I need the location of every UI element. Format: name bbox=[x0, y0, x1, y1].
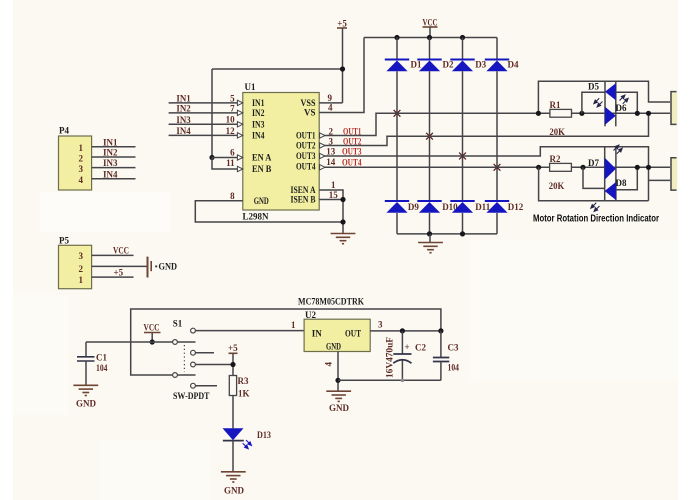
svg-text:R2: R2 bbox=[550, 154, 561, 164]
wire S1 throw stub 2 bbox=[195, 385, 217, 387]
svg-text:GND: GND bbox=[254, 196, 269, 206]
junction OUT2 with diode column D2/D10 bbox=[426, 133, 433, 140]
svg-text:D3: D3 bbox=[475, 59, 486, 69]
white right margin strip bbox=[678, 0, 700, 500]
U1 pin 6 arrow bbox=[237, 155, 242, 160]
capacitor C2 plus plate bbox=[393, 353, 411, 355]
svg-text:D5: D5 bbox=[588, 82, 599, 92]
S1 pole 1 contact bbox=[173, 340, 178, 345]
op IC U1 L298N body bbox=[243, 93, 319, 211]
svg-text:20K: 20K bbox=[549, 127, 565, 137]
svg-text:OUT4: OUT4 bbox=[296, 162, 316, 172]
svg-text:4: 4 bbox=[79, 175, 84, 185]
wire net OUT3 from pin 13 to lower indicator loop bbox=[319, 147, 648, 201]
svg-text:OUT1: OUT1 bbox=[296, 131, 316, 141]
junction OUT at C3 and loop bbox=[438, 328, 443, 333]
junction U2 GND with cap rail bbox=[335, 378, 340, 383]
wire net IN3 into U1 bbox=[169, 123, 243, 125]
svg-text:2: 2 bbox=[329, 126, 334, 136]
S1 pole 2 lever bbox=[177, 374, 195, 376]
svg-text:OUT2: OUT2 bbox=[296, 141, 316, 151]
svg-text:D1: D1 bbox=[411, 59, 422, 69]
diode D3 bbox=[450, 60, 474, 72]
faded white patch below P4 bbox=[40, 192, 170, 232]
svg-text:EN A: EN A bbox=[252, 153, 272, 163]
junction OUT1 at upper loop bbox=[536, 111, 541, 116]
wire ISEN A pin 1 to ground bbox=[319, 190, 343, 233]
svg-text:GND: GND bbox=[76, 398, 97, 408]
wire D6 cathode vertical bbox=[615, 81, 617, 126]
svg-text:IN: IN bbox=[312, 329, 323, 339]
U1 pin 13 output arrow bbox=[320, 153, 325, 158]
svg-text:D8: D8 bbox=[616, 178, 627, 188]
junction bottom rail at D10 bbox=[427, 231, 432, 236]
junction OUT3 with diode column D3/D11 bbox=[459, 153, 466, 160]
wire C1 bottom lead to ground bbox=[85, 361, 87, 385]
+5 bar at R3 bbox=[229, 352, 238, 354]
wire P5 pin 2 to GND bbox=[92, 265, 147, 267]
svg-text:OUT4: OUT4 bbox=[342, 157, 362, 167]
svg-text:IN3: IN3 bbox=[252, 119, 265, 129]
wire U1 VSS pin 9 to +5 bbox=[319, 102, 342, 104]
diode D1 bbox=[385, 60, 409, 72]
svg-text:+: + bbox=[405, 342, 410, 352]
ground below diode array bbox=[418, 243, 443, 253]
wire switch pole2 loop over U2 to output node bbox=[131, 309, 441, 375]
svg-text:Motor Rotation Direction Indic: Motor Rotation Direction Indicator bbox=[533, 213, 659, 225]
svg-text:IN3: IN3 bbox=[176, 115, 191, 125]
+5 supply bar bbox=[337, 27, 347, 29]
junction OUT at C2 bbox=[400, 328, 405, 333]
svg-text:VSS: VSS bbox=[301, 98, 316, 108]
svg-text:ISEN B: ISEN B bbox=[291, 195, 316, 205]
wire net OUT1 from pin 2 to indicator and motor connector bbox=[319, 113, 671, 135]
connector P5 bbox=[59, 245, 92, 288]
svg-text:8: 8 bbox=[230, 191, 235, 201]
wire S1 throw stub 1 bbox=[195, 352, 214, 354]
svg-text:L298N: L298N bbox=[243, 212, 269, 222]
svg-text:VCC: VCC bbox=[144, 322, 160, 332]
svg-text:OUT: OUT bbox=[345, 329, 361, 339]
junction EN A node bbox=[209, 155, 214, 160]
wire D12 to bottom rail bbox=[496, 213, 498, 234]
junction VCC rail at D3 bbox=[460, 35, 465, 40]
svg-text:U2: U2 bbox=[305, 310, 316, 320]
C2 bottom junction mark bbox=[401, 379, 405, 383]
U1 pin 3 output arrow bbox=[320, 143, 325, 148]
wire P4 pin 1 to net IN1 bbox=[92, 146, 136, 148]
svg-text:IN2: IN2 bbox=[176, 103, 191, 113]
svg-text:5: 5 bbox=[230, 93, 235, 103]
wire VCC stem bbox=[429, 27, 431, 38]
svg-text:6: 6 bbox=[230, 147, 235, 157]
wire U2 OUT pin 3 to capacitors bbox=[370, 330, 441, 332]
wire D13 to ground bbox=[232, 441, 234, 471]
white left margin strip bbox=[0, 0, 13, 500]
svg-text:16V470uF: 16V470uF bbox=[385, 336, 395, 378]
svg-text:IN1: IN1 bbox=[103, 137, 118, 147]
junction OUT2 return on OUT1 line bbox=[646, 111, 651, 116]
wire S1 throw to +5/R3 node bbox=[195, 364, 233, 366]
svg-text:D4: D4 bbox=[508, 59, 519, 69]
connector P4 bbox=[59, 136, 92, 190]
diode D10 bbox=[417, 201, 441, 213]
wire R3 to D13 bbox=[232, 396, 234, 429]
wire D5 cathode vertical bbox=[604, 81, 606, 126]
faded white patch lower-left bbox=[13, 295, 68, 415]
svg-text:OUT3: OUT3 bbox=[296, 151, 316, 161]
capacitor C2 curved plate bbox=[393, 360, 411, 364]
S1 throw contact mid1 bbox=[191, 350, 196, 355]
diode D4 bbox=[485, 60, 509, 72]
svg-text:IN2: IN2 bbox=[103, 148, 118, 158]
junction LED right node upper bbox=[635, 111, 640, 116]
svg-text:11: 11 bbox=[226, 158, 235, 168]
svg-text:VCC: VCC bbox=[113, 246, 129, 256]
wire +5 to R3 top bbox=[232, 353, 234, 375]
wire +5 down to VSS bbox=[342, 28, 344, 103]
svg-text:R1: R1 bbox=[550, 100, 561, 110]
svg-text:7: 7 bbox=[230, 103, 235, 113]
junction OUT3 loop on OUT4 line bbox=[646, 165, 651, 170]
S1 throw contact top bbox=[191, 328, 196, 333]
svg-text:1: 1 bbox=[331, 180, 336, 190]
svg-text:IN4: IN4 bbox=[252, 131, 265, 141]
svg-text:2: 2 bbox=[79, 264, 84, 274]
U1 pin 14 output arrow bbox=[320, 165, 325, 170]
svg-text:D7: D7 bbox=[588, 158, 599, 168]
svg-text:3: 3 bbox=[79, 164, 84, 174]
faded white patch right-low bbox=[470, 240, 678, 380]
svg-text:OUT2: OUT2 bbox=[343, 136, 362, 146]
wire +5 rail to EN feed bbox=[212, 68, 343, 70]
motor connector upper bracket bbox=[671, 92, 677, 125]
S1 mechanical link dotted bbox=[183, 345, 185, 372]
wire D4 cathode column down to D12 bbox=[496, 71, 498, 201]
wire VCC stem bottom bbox=[151, 333, 153, 343]
junction ISEN B on ground stem bbox=[340, 197, 345, 202]
wire VCC top rail bbox=[364, 37, 497, 39]
svg-text:SW-DPDT: SW-DPDT bbox=[173, 391, 210, 401]
LED D13 emission arrows bbox=[243, 440, 252, 449]
ground below D13 bbox=[221, 472, 246, 482]
wire lower indicator bottom loop bbox=[539, 167, 649, 200]
diode D9 bbox=[385, 201, 409, 213]
svg-text:D9: D9 bbox=[408, 202, 419, 212]
svg-text:12: 12 bbox=[226, 126, 236, 136]
svg-text:104: 104 bbox=[448, 363, 460, 373]
wire left stub to D5 bbox=[582, 92, 605, 113]
LED D13 cathode bar bbox=[223, 440, 244, 442]
U1 pin 11 arrow bbox=[237, 166, 242, 171]
svg-text:1K: 1K bbox=[238, 388, 250, 398]
svg-text:GND: GND bbox=[224, 486, 245, 496]
LED D5 bbox=[605, 83, 616, 100]
junction bottom rail at D11 bbox=[460, 231, 465, 236]
ground below U1 ISEN bbox=[331, 234, 356, 244]
wire C2 bottom lead bbox=[401, 361, 403, 381]
wire U1 GND pin 8 loop to ground rail bbox=[195, 201, 343, 222]
LED D7 emission arrows bbox=[614, 145, 623, 154]
junction VCC on pole1 wire bbox=[150, 339, 155, 344]
junction OUT4 at lower loop left bbox=[536, 165, 541, 170]
motor connector lower body bbox=[670, 157, 677, 191]
ground below C1 bbox=[73, 385, 98, 395]
svg-text:13: 13 bbox=[326, 147, 336, 157]
svg-text:EN B: EN B bbox=[252, 164, 271, 174]
S1 throw contact bottom bbox=[191, 383, 196, 388]
P5 ground symbol tall bar bbox=[147, 257, 149, 278]
resistor R3 bbox=[229, 376, 236, 396]
wire net IN2 into U1 bbox=[169, 112, 243, 114]
svg-text:S1: S1 bbox=[173, 319, 183, 329]
motor connector lower bracket bbox=[671, 158, 677, 190]
svg-text:+5: +5 bbox=[114, 267, 124, 277]
wire D11 to bottom rail bbox=[462, 213, 464, 234]
svg-text:1: 1 bbox=[79, 275, 84, 285]
svg-text:3: 3 bbox=[79, 251, 84, 261]
wire ISEN B pin 15 bbox=[319, 199, 343, 201]
wire upper indicator top loop to connector P1 pin bbox=[538, 81, 671, 113]
svg-text:104: 104 bbox=[96, 363, 108, 373]
LED D8 bbox=[605, 182, 616, 200]
diode D2 bbox=[417, 60, 441, 72]
wire D8 cathode vertical bbox=[615, 147, 617, 201]
svg-text:4: 4 bbox=[328, 103, 333, 113]
LED D8 emission arrows bbox=[591, 203, 600, 212]
wire +5 feed vertical to EN A bbox=[211, 69, 213, 158]
svg-text:15: 15 bbox=[329, 190, 339, 200]
capacitor C1 bbox=[77, 357, 95, 361]
wire EN A / EN B bbox=[212, 158, 243, 170]
svg-text:D2: D2 bbox=[443, 59, 454, 69]
wire to lower connector pin 2 bbox=[649, 179, 672, 181]
VCC supply bar bbox=[423, 26, 438, 28]
S1 throw contact mid2 bbox=[191, 362, 196, 367]
wire VCC rail to D3 bbox=[462, 38, 464, 60]
junction VCC rail at D1 bbox=[394, 35, 399, 40]
svg-text:GND: GND bbox=[326, 342, 341, 352]
svg-text:14: 14 bbox=[326, 157, 336, 167]
svg-text:C3: C3 bbox=[448, 343, 459, 353]
P5 ground symbol dot bbox=[155, 265, 157, 267]
svg-text:1: 1 bbox=[291, 320, 296, 330]
S1 pole 2 contact bbox=[173, 373, 178, 378]
svg-text:+5: +5 bbox=[228, 343, 238, 353]
svg-text:D11: D11 bbox=[475, 202, 491, 212]
motor connector upper body bbox=[670, 91, 677, 125]
LED D6 emission arrows bbox=[620, 95, 629, 104]
wire capacitor ground rail bbox=[338, 379, 441, 381]
svg-text:2: 2 bbox=[79, 153, 84, 163]
svg-text:OUT3: OUT3 bbox=[342, 147, 362, 157]
wire C2 top lead bbox=[401, 331, 403, 354]
wire C3 top lead bbox=[440, 331, 442, 357]
wire P4 pin 3 to net IN3 bbox=[92, 167, 136, 169]
ground below U2 bbox=[326, 391, 351, 401]
junction OUT1 at LED stub left bbox=[579, 111, 584, 116]
U1 pin 7 input arrow bbox=[237, 110, 242, 115]
U1 pin 2 output arrow bbox=[320, 133, 325, 138]
junction LED right node lower bbox=[635, 165, 640, 170]
wire D7 cathode vertical bbox=[604, 147, 606, 201]
svg-text:C2: C2 bbox=[415, 343, 426, 353]
wire D2 cathode column down to D10 bbox=[429, 71, 431, 201]
svg-text:GND: GND bbox=[159, 262, 178, 272]
U1 pin 5 input arrow bbox=[237, 100, 242, 105]
wire diode bottom ground rail bbox=[397, 233, 497, 235]
wire C3 bottom lead to rail bbox=[440, 362, 442, 381]
wire D10 to bottom rail bbox=[429, 213, 431, 234]
svg-text:MC78M05CDTRK: MC78M05CDTRK bbox=[298, 296, 364, 306]
wire D1 cathode column down to D9 bbox=[396, 71, 398, 201]
resistor R1 bbox=[550, 109, 572, 117]
wire D3 cathode column down to D11 bbox=[462, 71, 464, 201]
wire P5 pin 3 VCC bbox=[92, 254, 134, 256]
svg-text:IN2: IN2 bbox=[252, 108, 265, 118]
wire P5 pin 1 +5 bbox=[92, 276, 134, 278]
svg-text:D13: D13 bbox=[257, 430, 271, 440]
svg-text:VCC: VCC bbox=[423, 18, 438, 28]
wire U2 GND pin 4 down bbox=[337, 352, 339, 391]
junction OUT1 with diode column D1/D9 bbox=[394, 110, 401, 117]
VCC supply bar bottom bbox=[144, 332, 161, 334]
junction VCC rail at D2 bbox=[427, 35, 432, 40]
wire U1 VS pin 4 up to VCC rail bbox=[319, 38, 364, 113]
wire C1 to switch pole 1 bbox=[86, 341, 173, 343]
wire left stub to D8 bbox=[583, 167, 605, 188]
LED D7 bbox=[605, 158, 616, 180]
svg-text:IN1: IN1 bbox=[176, 93, 191, 103]
wire C1 top lead bbox=[85, 342, 87, 356]
svg-text:20K: 20K bbox=[549, 181, 565, 191]
capacitor C3 bbox=[433, 358, 449, 362]
LED D6 bbox=[605, 107, 616, 125]
junction +5 with switch throw wire bbox=[230, 362, 235, 367]
P5 ground symbol short bar bbox=[150, 261, 152, 271]
wire D9 to bottom rail bbox=[396, 213, 398, 234]
svg-text:1: 1 bbox=[79, 143, 84, 153]
diode D11 bbox=[450, 201, 474, 213]
svg-text:4: 4 bbox=[324, 362, 334, 367]
wire VCC rail to D1 bbox=[396, 38, 398, 60]
svg-text:D12: D12 bbox=[508, 202, 524, 212]
U1 pin 12 input arrow bbox=[237, 133, 242, 138]
resistor R2 bbox=[550, 163, 572, 171]
wire VCC rail to D4 bbox=[496, 38, 498, 60]
junction OUT4 with diode column D4/D12 bbox=[494, 164, 501, 171]
svg-text:D6: D6 bbox=[616, 103, 627, 113]
svg-text:IN3: IN3 bbox=[103, 158, 118, 168]
svg-text:VS: VS bbox=[304, 108, 316, 118]
svg-text:GND: GND bbox=[329, 403, 350, 413]
U1 pin 10 input arrow bbox=[237, 122, 242, 127]
svg-text:C1: C1 bbox=[96, 352, 107, 362]
LED D13 bbox=[223, 428, 244, 440]
wire VCC rail to D2 bbox=[429, 38, 431, 60]
diode D12 bbox=[485, 201, 509, 213]
svg-text:U1: U1 bbox=[245, 82, 256, 92]
svg-text:3: 3 bbox=[378, 320, 383, 330]
svg-text:+5: +5 bbox=[337, 19, 347, 29]
junction +5 node bbox=[340, 66, 345, 71]
wire net IN1 into U1 bbox=[169, 102, 243, 104]
wire P4 pin 4 to net IN4 bbox=[92, 178, 136, 180]
S1 pole 1 lever bbox=[177, 341, 195, 343]
wire bottom rail to ground bbox=[429, 234, 431, 242]
svg-text:ISEN A: ISEN A bbox=[291, 185, 316, 195]
svg-text:OUT1: OUT1 bbox=[343, 126, 362, 136]
svg-text:IN4: IN4 bbox=[103, 169, 118, 179]
wire net IN4 into U1 bbox=[169, 134, 243, 136]
wire right stub from D8 bbox=[616, 167, 637, 189]
wire net OUT4 from pin 14 through R2 line to motor connector bbox=[319, 166, 671, 168]
svg-text:P5: P5 bbox=[59, 235, 69, 245]
wire S1 throw to U2 IN bbox=[195, 330, 304, 332]
wire right stub from D6 bbox=[616, 92, 638, 113]
svg-text:P4: P4 bbox=[59, 126, 69, 136]
junction OUT4 at LED stub left lower bbox=[580, 165, 585, 170]
svg-text:IN4: IN4 bbox=[176, 126, 191, 136]
wire net OUT2 from pin 3 around to indicator right node bbox=[319, 113, 648, 145]
svg-text:IN1: IN1 bbox=[252, 98, 265, 108]
regulator U2 body bbox=[304, 319, 370, 351]
svg-text:R3: R3 bbox=[238, 376, 249, 386]
faded white patch bottom bbox=[100, 440, 210, 500]
svg-text:10: 10 bbox=[226, 115, 236, 125]
junction pin8 rail on ground stem bbox=[340, 219, 345, 224]
LED D5 emission arrows bbox=[594, 98, 603, 107]
wire P4 pin 2 to net IN2 bbox=[92, 156, 136, 158]
svg-text:3: 3 bbox=[329, 136, 334, 146]
